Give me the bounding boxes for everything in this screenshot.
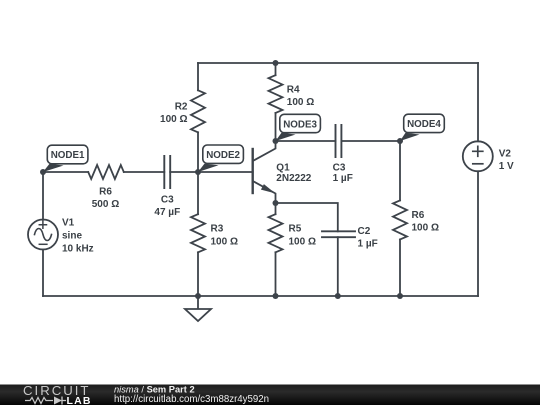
wire R3 to bottom rail [197, 252, 199, 296]
ground symbol [185, 296, 211, 321]
resistor R3 100ohm [191, 214, 205, 252]
resistor R6 100ohm right [393, 200, 407, 239]
svg-text:47 µF: 47 µF [154, 207, 180, 218]
V1 plus sign [39, 221, 46, 228]
transistor Q1 emitter arrow [261, 184, 275, 193]
junction node dot NODE2 [195, 169, 201, 175]
transistor Q1 emitter [253, 181, 276, 203]
svg-text:NODE4: NODE4 [407, 119, 441, 130]
junction dot emitter [273, 200, 279, 206]
circuitlab logo diode [54, 397, 62, 405]
svg-text:C3: C3 [333, 163, 346, 174]
wire R4 to NODE3 [275, 113, 277, 141]
wire R6 to C3 [124, 171, 165, 173]
voltage source V1 circle [28, 220, 58, 250]
svg-text:100 Ω: 100 Ω [289, 236, 316, 247]
wire R2 to NODE2 [197, 132, 199, 172]
svg-text:R4: R4 [287, 85, 300, 96]
svg-text:10 kHz: 10 kHz [62, 244, 94, 255]
junction dot top rail [273, 60, 279, 66]
junction node dot NODE1 [40, 169, 46, 175]
transistor Q1 base bar [251, 149, 253, 193]
node label NODE2 [198, 145, 243, 172]
wire NODE2 to R3 [197, 172, 199, 214]
svg-text:500 Ω: 500 Ω [92, 199, 119, 210]
wire top rail to R2 [197, 63, 199, 90]
wire C3 to Q1 base through NODE2 [170, 171, 253, 173]
voltage source V2 circle [463, 141, 493, 171]
resistor R5 100ohm [269, 214, 283, 252]
wire R5 to bottom rail [275, 252, 277, 296]
svg-text:http://circuitlab.com/c3m88zr4: http://circuitlab.com/c3m88zr4y592n [114, 394, 269, 405]
wire NODE4 to R6b [399, 141, 401, 200]
node label NODE3 [276, 114, 321, 141]
V1 minus sign [39, 243, 47, 245]
svg-text:R2: R2 [175, 102, 188, 113]
svg-text:NODE1: NODE1 [51, 150, 85, 161]
wire R6b to bottom rail [399, 240, 401, 297]
wire C2 to bottom rail [337, 237, 339, 296]
svg-text:R5: R5 [289, 224, 302, 235]
wire emitter node to R5 [275, 203, 277, 214]
resistor R4 100ohm [269, 75, 283, 113]
wire NODE3 to C3b [276, 140, 336, 142]
transistor Q1 collector [253, 141, 276, 161]
svg-text:V2: V2 [499, 149, 512, 160]
resistor R6 500ohm [88, 165, 124, 179]
wire left rail bottom (V1 to bottom rail) [42, 250, 44, 297]
V2 minus sign [473, 163, 483, 165]
svg-text:1 µF: 1 µF [358, 239, 378, 250]
wire top rail [198, 62, 478, 64]
junction dot bottom C2 [335, 293, 341, 299]
resistor R2 100ohm [191, 90, 205, 132]
capacitor C3 1uF plates [336, 125, 342, 157]
svg-text:V1: V1 [62, 218, 75, 229]
junction node dot NODE3 [273, 138, 279, 144]
wire NODE1 to R6 [43, 171, 88, 173]
svg-text:R6: R6 [99, 187, 112, 198]
wire emitter node to C2 [276, 203, 338, 231]
svg-text:Q1: Q1 [276, 163, 290, 174]
svg-text:C2: C2 [358, 226, 371, 237]
svg-text:C3: C3 [161, 195, 174, 206]
wire top rail junction to R4 [275, 63, 277, 75]
junction dot bottom R3 [195, 293, 201, 299]
wire right rail bottom [477, 171, 479, 296]
svg-text:NODE3: NODE3 [283, 119, 317, 130]
svg-text:LAB: LAB [67, 395, 92, 405]
wire bottom rail [43, 295, 478, 297]
svg-text:R6: R6 [412, 210, 425, 221]
svg-text:R3: R3 [211, 224, 224, 235]
node label NODE1 [43, 145, 88, 172]
svg-text:100 Ω: 100 Ω [211, 236, 238, 247]
wire C3b to NODE4 [341, 140, 400, 142]
svg-text:NODE2: NODE2 [206, 150, 240, 161]
node label NODE4 [400, 114, 444, 141]
circuitlab logo resistor zigzag [25, 398, 53, 404]
wire right rail top [477, 63, 479, 141]
svg-text:100 Ω: 100 Ω [160, 114, 187, 125]
junction node dot NODE4 [397, 138, 403, 144]
wire left rail top (NODE1 to V1) [42, 172, 44, 220]
capacitor C2 plates [322, 231, 355, 237]
svg-text:1 V: 1 V [499, 161, 514, 172]
junction dot bottom R5 [273, 293, 279, 299]
svg-text:100 Ω: 100 Ω [412, 223, 439, 234]
svg-text:sine: sine [62, 231, 82, 242]
junction dot bottom R6b [397, 293, 403, 299]
capacitor C3 47uF plates [164, 156, 170, 188]
svg-text:100 Ω: 100 Ω [287, 97, 314, 108]
svg-text:2N2222: 2N2222 [276, 173, 311, 184]
svg-text:1 µF: 1 µF [333, 173, 353, 184]
V1 sine wave [35, 229, 52, 241]
V2 plus sign [473, 146, 483, 156]
